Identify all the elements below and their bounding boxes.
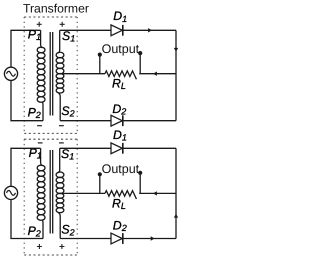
transformer dashed boundary box (circuit 2) — [24, 139, 77, 255]
svg-text:Output: Output — [102, 42, 140, 56]
polarity mark - above P1 (circuit 2) — [38, 142, 43, 144]
wire: left vertical from source to primary bottom (circuit 1) — [11, 80, 43, 120]
polarity mark - below P2 (circuit 1) — [37, 125, 42, 127]
resistor RL (circuit 1) — [105, 71, 136, 79]
node: output terminal right (circuit 2) — [138, 171, 142, 194]
node: output terminal left (circuit 1) — [98, 53, 102, 74]
diode D1 (circuit 1) — [111, 25, 123, 36]
wire: load to right rail (circuit 1) — [139, 73, 176, 75]
wire: load to right rail (circuit 2) — [139, 192, 176, 194]
current arrow up right rail (circuit 2) — [174, 214, 178, 218]
diode D2 (circuit 2) — [111, 233, 123, 244]
transformer core (circuit 1) — [50, 32, 53, 116]
wire: secondary top to right rail through D1 (circuit 2) — [60, 147, 176, 149]
wire: secondary bottom to right rail through D2 (circuit 1) — [60, 120, 176, 122]
current arrow on top wire (circuit 1) — [148, 28, 152, 32]
svg-text:Transformer: Transformer — [23, 2, 89, 16]
wire: right vertical rail (circuit 2) — [175, 148, 177, 238]
node: output terminal left (circuit 2) — [98, 172, 102, 193]
wire: left vertical from source to primary top (circuit 2) — [11, 148, 41, 186]
diode D1 (circuit 2) — [111, 143, 123, 154]
polarity mark - below S2 (circuit 1) — [59, 125, 64, 127]
transformer secondary winding S with center tap (circuit 2) — [56, 148, 64, 238]
wire: right vertical rail (circuit 1) — [175, 30, 177, 120]
svg-text:Output: Output — [102, 162, 140, 176]
wire: secondary top to right rail through D1 (circuit 1) — [60, 29, 176, 31]
polarity mark + below P2 (circuit 2) — [37, 244, 42, 249]
current arrow on bottom wire (circuit 2) — [151, 236, 155, 240]
transformer core (circuit 2) — [50, 150, 53, 234]
wire: left vertical from source to primary top (circuit 1) — [11, 30, 41, 67]
diode D2 (circuit 1) — [111, 115, 123, 126]
current arrow through load toward tap (circuit 1) — [153, 72, 157, 76]
current arrow through load toward tap (circuit 2) — [153, 191, 157, 195]
wire: center tap to load (circuit 1) — [58, 73, 105, 75]
node: output terminal right (circuit 1) — [138, 51, 142, 74]
transformer secondary winding S with center tap (circuit 1) — [56, 30, 64, 120]
polarity mark - above S1 (circuit 2) — [59, 142, 64, 144]
polarity mark + below S2 (circuit 2) — [59, 244, 64, 249]
current arrow down right rail (circuit 1) — [174, 48, 178, 52]
AC source (circuit 2) — [4, 186, 17, 199]
resistor RL (circuit 2) — [105, 191, 136, 199]
wire: center tap to load (circuit 2) — [58, 192, 105, 194]
transformer primary winding P (circuit 1) — [37, 30, 45, 120]
transformer dashed boundary box (circuit 1) — [24, 17, 77, 133]
wire: left vertical from source to primary bottom (circuit 2) — [11, 200, 43, 239]
polarity mark + above S1 (circuit 1) — [60, 22, 65, 27]
AC source (circuit 1) — [4, 67, 17, 80]
polarity mark + above P1 (circuit 1) — [37, 22, 42, 27]
wire: secondary bottom to right rail through D2 (circuit 2) — [60, 238, 176, 240]
transformer primary winding P (circuit 2) — [37, 148, 45, 238]
